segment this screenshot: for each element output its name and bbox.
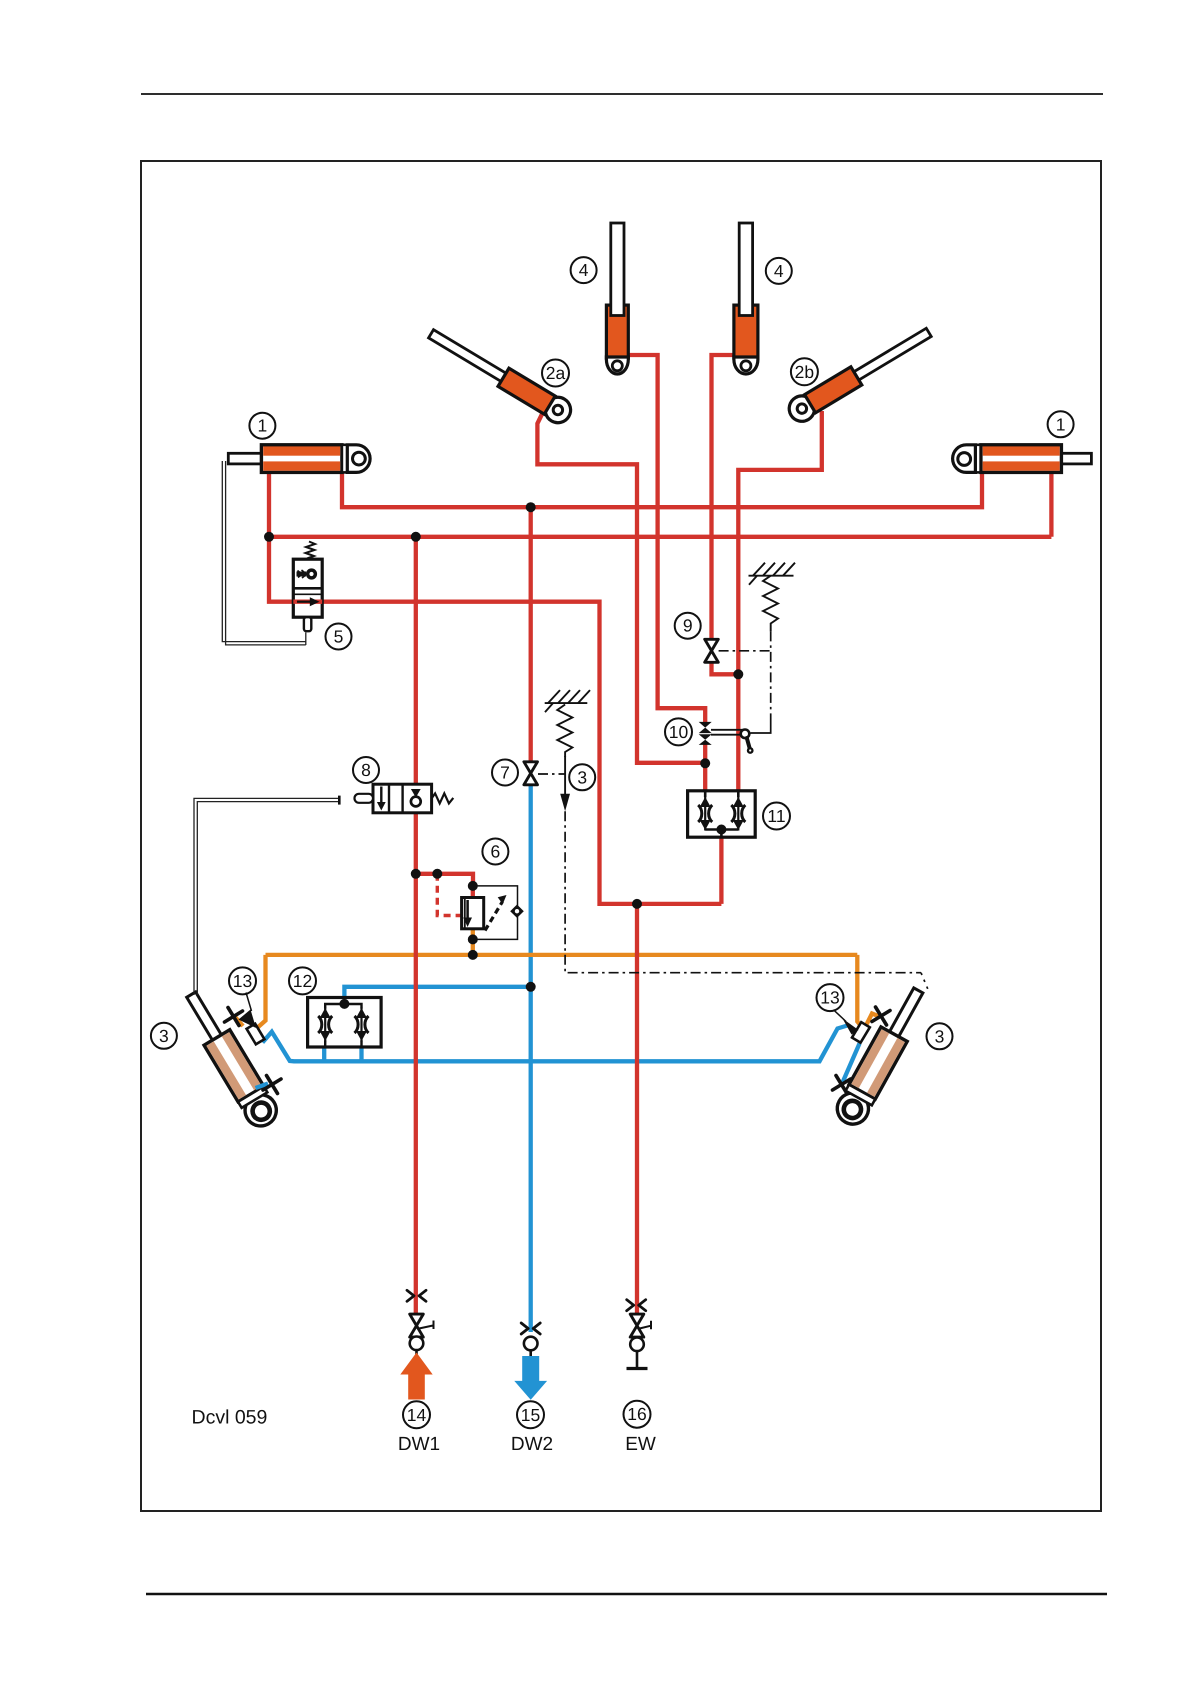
svg-text:4: 4 — [774, 261, 784, 281]
svg-text:8: 8 — [361, 760, 371, 780]
svg-text:9: 9 — [683, 616, 693, 636]
svg-text:14: 14 — [407, 1405, 427, 1425]
svg-text:DW1: DW1 — [398, 1434, 440, 1455]
svg-text:EW: EW — [625, 1434, 656, 1455]
svg-text:2b: 2b — [795, 362, 814, 382]
svg-text:DW2: DW2 — [511, 1434, 553, 1455]
svg-text:Dcvl 059: Dcvl 059 — [192, 1407, 268, 1429]
svg-text:6: 6 — [491, 842, 501, 862]
svg-text:3: 3 — [935, 1026, 945, 1046]
svg-text:1: 1 — [258, 416, 268, 436]
svg-text:4: 4 — [579, 260, 589, 280]
svg-text:13: 13 — [233, 971, 252, 991]
svg-text:12: 12 — [293, 971, 312, 991]
svg-text:7: 7 — [500, 763, 510, 783]
svg-text:1: 1 — [1056, 414, 1066, 434]
svg-text:15: 15 — [521, 1405, 540, 1425]
svg-text:10: 10 — [669, 722, 689, 742]
svg-text:11: 11 — [767, 806, 785, 826]
svg-text:13: 13 — [820, 988, 839, 1008]
svg-text:5: 5 — [334, 627, 344, 647]
svg-text:16: 16 — [627, 1404, 646, 1424]
svg-text:3: 3 — [159, 1026, 169, 1046]
svg-text:3: 3 — [577, 767, 587, 787]
svg-text:2a: 2a — [546, 363, 566, 383]
